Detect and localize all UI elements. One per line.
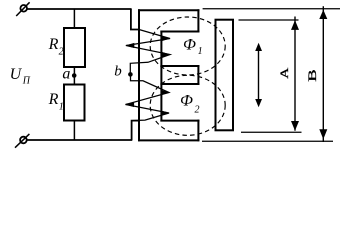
wire from top rail to R2 — [73, 9, 75, 29]
winding W1 wedges — [125, 36, 170, 57]
core right edge segment top — [197, 9, 199, 32]
svg-text:1: 1 — [198, 46, 203, 57]
armature plate — [216, 20, 234, 131]
terminal top-left — [16, 2, 29, 16]
winding W1 zigzag — [126, 30, 170, 74]
top window top edge — [160, 31, 199, 33]
svg-text:b: b — [114, 64, 122, 80]
label R1 — [48, 91, 64, 113]
flux ellipse F2 (dashed) — [150, 75, 225, 135]
winding W2 wedges — [125, 90, 170, 116]
svg-text:П: П — [22, 76, 31, 87]
wire top rail — [27, 8, 132, 10]
svg-text:В: В — [307, 69, 319, 82]
core inner vertical (window left edges) — [160, 31, 162, 122]
svg-text:2: 2 — [195, 104, 200, 115]
flux ellipse F1 (dashed) — [150, 17, 225, 75]
dim B arrow line — [319, 6, 327, 142]
core right edge segment middle — [197, 65, 199, 85]
node a — [72, 73, 77, 78]
core left limb edge — [138, 9, 140, 141]
resistor R1 — [64, 85, 85, 121]
wire R1 to bottom rail — [73, 121, 75, 141]
winding W2 zigzag — [126, 75, 170, 121]
node b — [128, 72, 133, 77]
svg-text:1: 1 — [59, 102, 64, 113]
svg-text:2: 2 — [59, 47, 64, 58]
label R2 — [48, 36, 64, 57]
wire R2 to R1 — [73, 67, 75, 84]
wire bottom rail — [27, 139, 133, 141]
svg-text:Ф: Ф — [183, 36, 196, 53]
svg-text:R: R — [48, 91, 59, 108]
svg-text:А: А — [277, 67, 291, 78]
bottom window bottom edge — [160, 120, 199, 122]
dim B extension bottom — [202, 140, 333, 142]
label Phi1 — [183, 36, 203, 57]
wire drop from top rail to winding — [131, 9, 139, 30]
core right edge segment bottom — [197, 120, 199, 142]
label Phi2 — [180, 92, 200, 115]
dim B extension top — [203, 8, 340, 10]
svg-text:U: U — [10, 66, 23, 83]
middle limb top edge — [160, 65, 199, 67]
svg-text:a: a — [62, 65, 70, 82]
terminal bottom-left — [15, 134, 29, 148]
dim A extension top — [239, 19, 299, 21]
dim A extension bottom — [241, 131, 302, 133]
middle limb bottom edge — [160, 83, 199, 85]
dim A arrow line — [291, 17, 299, 131]
core top yoke edge — [138, 9, 199, 11]
svg-text:Ф: Ф — [180, 92, 193, 109]
resistor R2 — [64, 28, 85, 67]
core bottom yoke edge — [138, 139, 199, 141]
air-gap arrow — [255, 43, 262, 107]
wire rise from bottom rail to winding — [132, 121, 139, 140]
svg-text:R: R — [48, 36, 59, 53]
label Uп — [10, 66, 31, 87]
